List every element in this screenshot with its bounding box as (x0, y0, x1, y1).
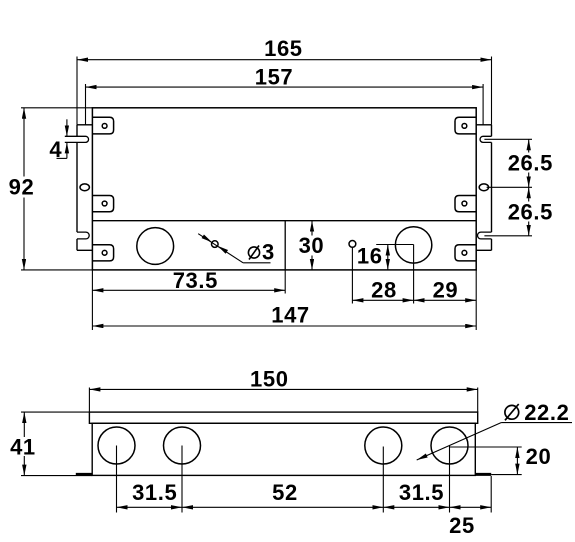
svg-text:147: 147 (271, 303, 310, 328)
middle vertical divider (284, 221, 286, 270)
right flange slot (lower) (477, 232, 491, 239)
left flange oval hole (80, 184, 89, 191)
dimension 26.5 (upper) (484, 139, 554, 187)
dimension 92 (9, 108, 93, 270)
dimension 31.5 left (117, 480, 183, 507)
mounting tab right 1 (455, 117, 476, 134)
svg-text:26.5: 26.5 (508, 151, 553, 176)
dimension 73.5 (92, 268, 285, 330)
dimension 4 (49, 119, 67, 162)
tab hole right 2 (462, 201, 467, 206)
bottom view body (92, 423, 475, 475)
left foot (76, 473, 92, 476)
dimension 20 (450, 444, 552, 475)
svg-text:26.5: 26.5 (508, 200, 553, 225)
right flange oval hole (479, 184, 488, 191)
wire strip divider (horizontal) (92, 220, 476, 222)
mounting tab left 1 (92, 117, 113, 134)
svg-text:20: 20 (526, 444, 552, 469)
big hole right (top view) (395, 227, 431, 263)
small hole dia3 (top view) (212, 241, 219, 248)
bottom hole 1 (98, 427, 135, 464)
bottom hole 4 (431, 427, 468, 464)
bottom view lid (89, 412, 477, 423)
dimension 157 (86, 64, 484, 125)
left flange slot (upper, with dim-4 extension) (65, 136, 89, 142)
leader dia 22.2 (416, 400, 572, 462)
dimension 41 (9, 412, 92, 476)
right flange slot (upper) (480, 136, 491, 142)
tab hole right 3 (462, 250, 467, 255)
svg-text:4: 4 (49, 137, 62, 162)
dimension 25 (449, 507, 491, 538)
right foot (475, 473, 491, 476)
dimension 30 (297, 221, 325, 270)
svg-text:25: 25 (449, 513, 475, 538)
mounting tab left 3 (92, 245, 113, 261)
svg-text:92: 92 (9, 175, 35, 200)
svg-text:29: 29 (433, 278, 459, 303)
dimension 26.5 (lower) (484, 187, 554, 236)
svg-text:22.2: 22.2 (524, 400, 569, 425)
tab hole left 3 (102, 250, 107, 255)
tab hole right 1 (462, 124, 467, 129)
svg-text:31.5: 31.5 (399, 480, 444, 505)
svg-text:165: 165 (264, 36, 303, 61)
top view body outline (92, 108, 476, 270)
dimension 52 (182, 480, 383, 507)
bottom hole 2 (164, 427, 201, 464)
extension lines bottom holes (117, 446, 492, 513)
svg-text:30: 30 (299, 233, 325, 258)
big hole left (top view) (137, 228, 174, 265)
right flange (476, 125, 491, 251)
svg-text:3: 3 (262, 240, 275, 265)
tab hole left 1 (102, 124, 107, 129)
svg-text:28: 28 (371, 278, 397, 303)
svg-text:73.5: 73.5 (173, 268, 218, 293)
svg-text:157: 157 (255, 64, 294, 89)
dimension 150 (89, 367, 477, 413)
small hole 16 (top view) (349, 241, 356, 248)
dimension 28 (352, 245, 413, 304)
svg-text:52: 52 (272, 480, 298, 505)
mounting tab right 3 (455, 245, 476, 261)
leader dia 3 (198, 234, 275, 265)
dimension 165 (77, 36, 492, 125)
tab hole left 2 (102, 201, 107, 206)
dimension 147 (92, 270, 476, 330)
dimension 29 (414, 278, 477, 303)
dimension 31.5 right (383, 480, 449, 507)
svg-text:150: 150 (250, 367, 289, 392)
svg-text:16: 16 (357, 244, 383, 269)
mounting tab left 2 (92, 196, 113, 212)
left flange (77, 125, 92, 251)
dimension 16 (357, 244, 414, 270)
svg-text:41: 41 (10, 434, 36, 459)
mounting tab right 2 (455, 196, 476, 212)
bottom hole 3 (365, 427, 402, 464)
svg-text:31.5: 31.5 (132, 480, 177, 505)
left flange slot (lower) (77, 232, 89, 239)
